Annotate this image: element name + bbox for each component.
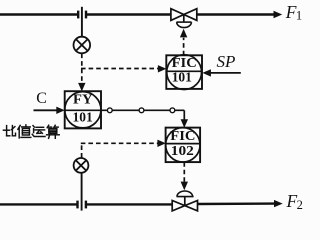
dashed signal: FIC101 up to valve V1 (180, 29, 187, 56)
data link: FY101 to FIC102 (line with node circles) (101, 110, 188, 128)
control valve V1 actuator (diaphragm, facing down) (177, 15, 192, 28)
svg-text:FIC: FIC (172, 55, 197, 70)
dashed signal: FIC102 down to valve V2 (181, 162, 188, 190)
label F1 (285, 2, 302, 23)
flow transmitter FT1 (circle with X) (74, 37, 91, 54)
data link node circle 1 (107, 108, 112, 113)
SP setpoint arrow into FIC101 (202, 69, 240, 76)
wire: top pipe outlet with arrow (197, 11, 282, 18)
caption: 比值运算 (ratio computation), hand-drawn strokes (3, 125, 59, 138)
data link node circle 2 (139, 108, 144, 113)
ratio unit FY101 (square with inscribed circle) (65, 91, 101, 128)
flow transmitter FT2 (circle with X) (74, 158, 89, 173)
svg-text:101: 101 (73, 109, 93, 124)
label F2 (286, 191, 303, 212)
svg-text:FY: FY (73, 91, 93, 106)
orifice plate FE2 (bottom flow element) (78, 173, 86, 211)
wire: top pipe left segment (0, 13, 77, 15)
orifice plate FE1 (top flow element) (78, 7, 86, 37)
svg-text:102: 102 (171, 143, 194, 158)
controller FIC102 (square with inscribed circle) (166, 128, 201, 163)
svg-text:101: 101 (172, 70, 192, 85)
svg-text:C: C (36, 90, 47, 107)
char 比 (6, 126, 8, 136)
dashed signal branch: FT1 to FIC101 (81, 65, 166, 72)
char 值 (18, 125, 20, 129)
svg-text:FIC: FIC (170, 128, 195, 143)
control valve V1 body (171, 9, 197, 21)
wire: top pipe middle segment (87, 13, 171, 15)
control valve V2 body (172, 201, 197, 211)
control valve V2 actuator (diaphragm, facing up) (177, 191, 194, 206)
svg-text:SP: SP (217, 52, 236, 71)
data link node circle 3 (170, 108, 175, 113)
char 运 (36, 126, 44, 128)
svg-text:1: 1 (296, 9, 302, 23)
signal C arrow into FY101 (34, 107, 65, 114)
wire: bottom pipe outlet with arrow (198, 200, 283, 207)
wire: bottom pipe left segment (0, 203, 77, 205)
wire: bottom pipe middle segment (87, 203, 173, 205)
svg-text:2: 2 (297, 198, 303, 212)
char 算 (48, 126, 52, 128)
controller FIC101 (square with inscribed circle) (166, 55, 202, 90)
dashed signal: FT1 down to FY101 (78, 54, 85, 92)
dashed signal: FT2 to FIC102 (81, 140, 166, 158)
